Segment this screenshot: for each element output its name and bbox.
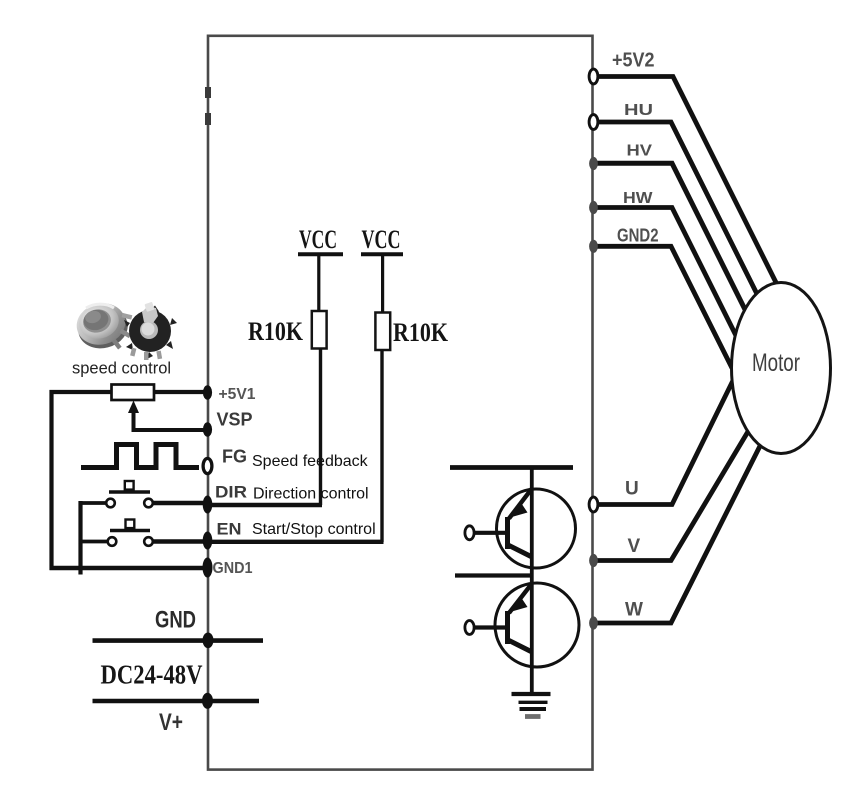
- transistor Q2 collector diagonal: [508, 640, 531, 652]
- transistor Q2 base lead: [474, 625, 507, 629]
- svg-text:Motor: Motor: [752, 349, 800, 377]
- wire stub DIR switch to rail: [79, 501, 107, 505]
- transistor Q1 base bar: [505, 517, 510, 549]
- potentiometer RP1 wiper arrow: [128, 401, 139, 414]
- wire left ground rail vertical: [49, 390, 53, 570]
- transistor Q1 circle: [497, 489, 576, 568]
- resistor R2 body: [375, 313, 390, 351]
- svg-text:GND1: GND1: [213, 560, 253, 577]
- ground symbol: [512, 694, 551, 717]
- svg-text:Speed feedback: Speed feedback: [252, 453, 369, 470]
- transistor Q2 circle: [495, 583, 579, 667]
- svg-text:FG: FG: [222, 447, 247, 467]
- pin FG: [203, 458, 212, 473]
- svg-text:EN: EN: [217, 520, 242, 539]
- collector top bar: [450, 465, 573, 470]
- wire R2 down to EN: [380, 350, 383, 542]
- svg-text:DC24-48V: DC24-48V: [101, 659, 203, 690]
- svg-text:U: U: [625, 479, 639, 500]
- svg-text:HW: HW: [623, 190, 653, 207]
- pushbutton S2 (EN) cap: [126, 520, 135, 529]
- wire DIR inside board: [209, 503, 322, 507]
- wire V: [593, 422, 754, 561]
- pushbutton S2 (EN) right contact: [144, 537, 153, 546]
- transistor Q1 emitter diagonal with arrow: [509, 489, 532, 519]
- potentiometer RP1 body: [112, 385, 155, 401]
- wire GND1 horizontal: [50, 566, 208, 571]
- pin HV: [589, 157, 598, 170]
- svg-text:GND2: GND2: [617, 226, 659, 246]
- FG waveform: [81, 445, 199, 468]
- svg-text:HU: HU: [624, 102, 653, 119]
- pin HW: [589, 201, 598, 214]
- svg-text:V: V: [628, 536, 641, 557]
- collector vertical wire: [530, 468, 534, 695]
- svg-text:Start/Stop control: Start/Stop control: [252, 521, 376, 538]
- wire U: [593, 381, 733, 505]
- pin stub top-left 1: [205, 87, 211, 98]
- pin V: [589, 554, 598, 567]
- svg-text:VCC: VCC: [362, 224, 401, 254]
- wire GND power line: [93, 638, 264, 643]
- svg-text:HV: HV: [627, 143, 653, 160]
- wire HU: [592, 122, 758, 296]
- wire VCC2 to R2: [381, 256, 384, 315]
- pushbutton S2 (EN) left contact: [108, 537, 117, 546]
- transistor Q2 base bar: [505, 611, 510, 644]
- pin stub top-left 2: [205, 113, 211, 125]
- svg-text:DIR: DIR: [215, 483, 247, 502]
- svg-text:speed control: speed control: [72, 360, 171, 378]
- emitter mid bar: [455, 573, 532, 577]
- driver board outline: [208, 36, 593, 770]
- pushbutton S1 (DIR) bar: [109, 490, 150, 493]
- transistor Q2 emitter diagonal with arrow: [509, 584, 532, 613]
- wire HV: [592, 163, 745, 309]
- pin EN: [203, 532, 213, 550]
- wire +5V1 horizontal: [50, 390, 210, 394]
- svg-text:Direction control: Direction control: [253, 486, 369, 503]
- wire wiper to VSP: [132, 428, 210, 432]
- svg-text:R10K: R10K: [248, 316, 303, 346]
- transistor Q1 base terminal ring: [465, 526, 474, 540]
- wire switch rail vertical: [78, 501, 82, 575]
- VCC right rail bar: [361, 252, 403, 256]
- wire GND2: [592, 246, 732, 368]
- svg-text:+5V1: +5V1: [219, 386, 256, 403]
- pin HU: [589, 115, 598, 130]
- pin +5V2: [589, 69, 598, 84]
- pin GND2: [589, 240, 598, 253]
- pushbutton S1 (DIR) left contact: [106, 499, 115, 508]
- motor M1 body: [732, 283, 831, 454]
- pin VSP: [203, 422, 212, 436]
- VCC left rail bar: [298, 252, 343, 256]
- wire VCC1 to R1: [317, 256, 320, 314]
- pushbutton S2 (EN) bar: [110, 529, 150, 532]
- transistor Q1 collector diagonal: [508, 545, 531, 557]
- svg-text:GND: GND: [155, 607, 196, 634]
- svg-text:VCC: VCC: [299, 224, 337, 254]
- svg-text:W: W: [625, 600, 643, 621]
- wire S2 to EN pin: [153, 539, 210, 543]
- speed control photo: rotary pot right (black): [124, 302, 177, 360]
- pin W: [589, 616, 598, 629]
- wire +5V2: [592, 77, 777, 284]
- transistor Q2 base terminal ring: [465, 621, 474, 635]
- svg-text:+5V2: +5V2: [612, 50, 655, 72]
- svg-text:R10K: R10K: [393, 317, 448, 347]
- junction GND: [203, 633, 214, 649]
- wire W: [593, 444, 761, 623]
- pin U: [589, 497, 598, 512]
- pin DIR: [203, 496, 213, 514]
- resistor R1 body: [312, 311, 327, 349]
- wire S1 to DIR pin: [153, 501, 210, 505]
- transistor Q1 base lead: [474, 531, 507, 535]
- wire R1 down to DIR: [319, 348, 322, 505]
- speed control photo: rotary pot left (metal): [72, 298, 132, 353]
- pin +5V1: [203, 385, 212, 399]
- svg-text:V+: V+: [159, 709, 183, 736]
- wire HW: [592, 208, 736, 336]
- wire V+ power line: [93, 699, 260, 704]
- junction V+: [202, 693, 213, 709]
- pin GND1: [203, 558, 213, 578]
- wire stub EN switch to rail: [79, 540, 108, 544]
- wire EN inside board: [209, 540, 384, 544]
- svg-text:VSP: VSP: [217, 410, 253, 430]
- pushbutton S1 (DIR) cap: [125, 481, 134, 490]
- pushbutton S1 (DIR) right contact: [144, 499, 153, 508]
